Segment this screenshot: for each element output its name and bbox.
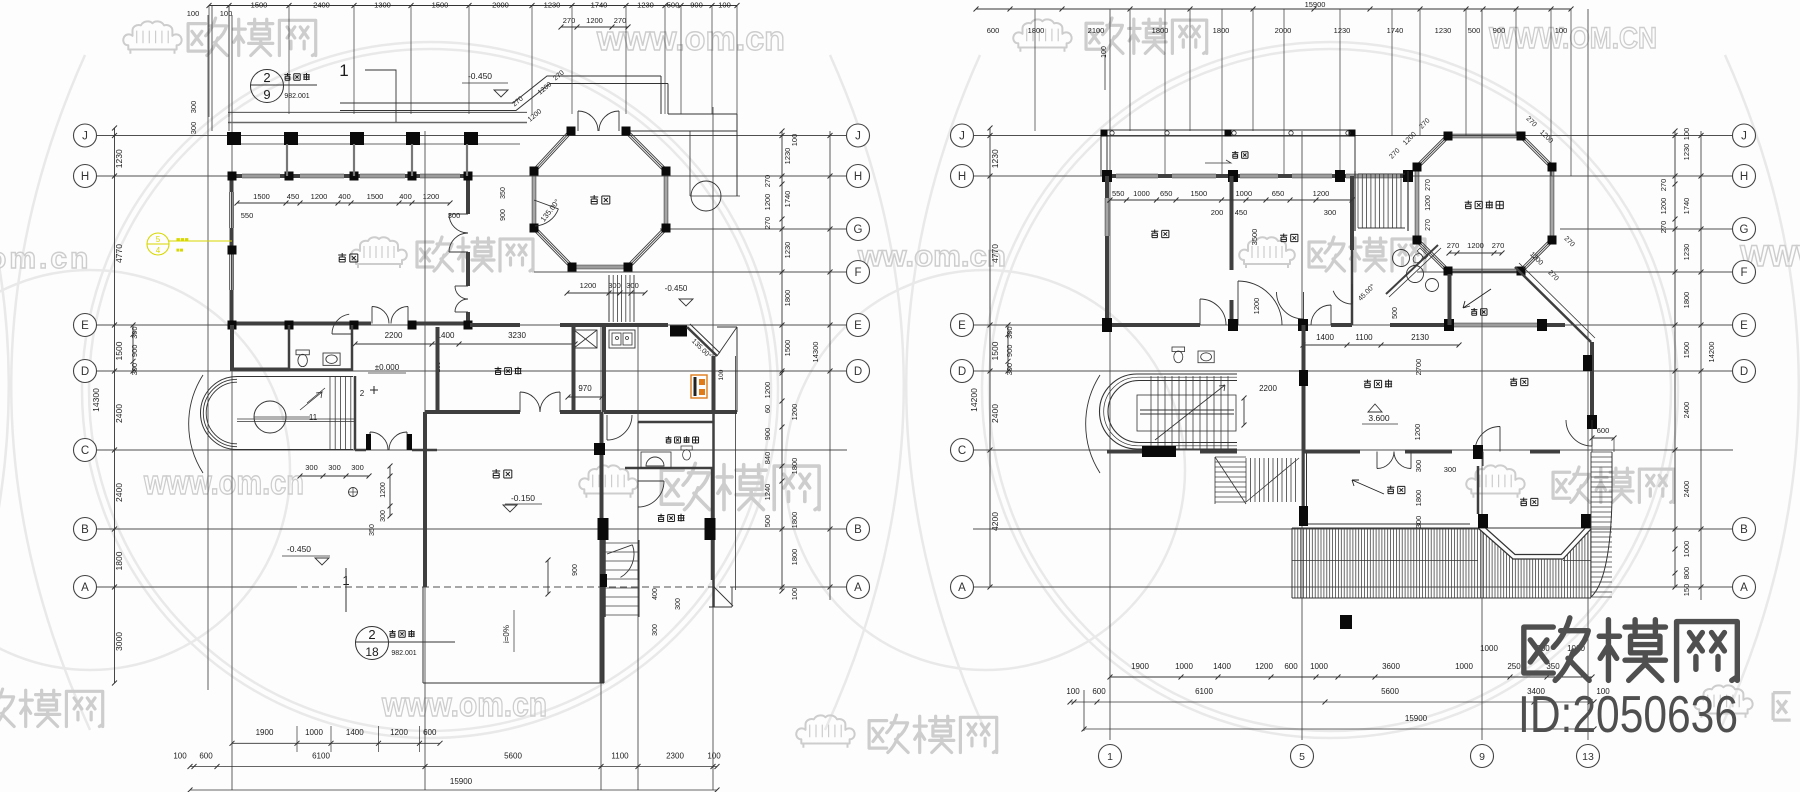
worker room — [637, 468, 639, 580]
corridor right wing — [602, 327, 606, 412]
svg-text:970: 970 — [578, 384, 592, 393]
svg-text:400: 400 — [652, 588, 659, 600]
svg-text:14300: 14300 — [811, 342, 820, 363]
svg-text:1230: 1230 — [544, 1, 561, 10]
svg-text:100: 100 — [718, 1, 731, 10]
svg-text:1800: 1800 — [790, 549, 799, 566]
svg-text:A: A — [1740, 582, 1748, 594]
svg-text:400: 400 — [338, 192, 351, 201]
svg-text:3.600: 3.600 — [1368, 413, 1390, 423]
svg-text:300: 300 — [448, 211, 461, 220]
svg-text:-0.450: -0.450 — [287, 544, 311, 554]
svg-text:1000: 1000 — [1175, 662, 1193, 671]
svg-text:400: 400 — [399, 192, 412, 201]
svg-text:300: 300 — [189, 122, 198, 135]
svg-text:982.001: 982.001 — [391, 650, 416, 657]
svg-text:900: 900 — [690, 1, 703, 10]
toilet near stairs — [1172, 347, 1185, 363]
svg-text:2400: 2400 — [114, 483, 124, 502]
svg-text:2400: 2400 — [990, 404, 1000, 423]
top extension lines — [1034, 9, 1036, 131]
svg-text:om.cn: om.cn — [0, 242, 91, 275]
svg-text:1230: 1230 — [1682, 244, 1691, 261]
svg-text:300: 300 — [1444, 465, 1457, 474]
svg-text:C: C — [81, 445, 89, 457]
svg-text:270: 270 — [1425, 179, 1432, 191]
svg-text:1200: 1200 — [1467, 241, 1484, 250]
svg-text:6100: 6100 — [1195, 687, 1213, 696]
C axis walls — [1107, 450, 1142, 454]
svg-text:3230: 3230 — [508, 331, 526, 340]
svg-text:B: B — [1740, 524, 1748, 536]
svg-text:A: A — [81, 582, 89, 594]
svg-text:E: E — [1740, 320, 1748, 332]
svg-text:1200: 1200 — [1313, 189, 1330, 198]
svg-text:1230: 1230 — [114, 149, 124, 168]
octagon dining room — [627, 130, 667, 170]
svg-text:1400: 1400 — [346, 728, 364, 737]
svg-text:14300: 14300 — [91, 388, 101, 412]
svg-text:1740: 1740 — [591, 1, 608, 10]
svg-text:1800: 1800 — [1152, 26, 1169, 35]
bedroom1 left wall — [1105, 176, 1109, 198]
svg-text:1000: 1000 — [1682, 541, 1691, 558]
watermark row 1 — [123, 21, 181, 53]
svg-text:270: 270 — [1659, 179, 1668, 192]
svg-text:2100: 2100 — [1088, 26, 1105, 35]
svg-text:300: 300 — [351, 463, 364, 472]
garage small dims — [300, 475, 369, 477]
bottom right eave — [714, 587, 733, 606]
octagon bottom dims — [567, 292, 645, 294]
B axis columns — [598, 518, 609, 540]
garage door from hall — [519, 392, 521, 412]
watermark row 4 — [0, 689, 14, 726]
svg-text:3000: 3000 — [114, 632, 124, 651]
svg-text:14200: 14200 — [969, 388, 979, 412]
left plan bottom dimension rows — [232, 742, 440, 744]
kitchen sink — [609, 330, 635, 348]
svg-text:982.001: 982.001 — [284, 93, 309, 100]
svg-text:1240: 1240 — [763, 484, 772, 501]
svg-text:550: 550 — [1112, 189, 1125, 198]
svg-text:4770: 4770 — [990, 244, 1000, 263]
living room double door on E wall — [371, 307, 373, 324]
circle 2/18 stair ref bottom — [356, 627, 389, 660]
west double doors on living right wall — [449, 213, 468, 215]
svg-text:3600: 3600 — [1382, 662, 1400, 671]
svg-text:1000: 1000 — [1310, 662, 1328, 671]
svg-text:60: 60 — [763, 405, 772, 413]
svg-text:9: 9 — [1479, 751, 1485, 763]
octagon door top — [577, 111, 579, 131]
svg-text:100: 100 — [1101, 46, 1108, 58]
svg-text:-0.150: -0.150 — [511, 493, 535, 503]
svg-text:100: 100 — [1555, 26, 1568, 35]
svg-text:±0.000: ±0.000 — [375, 363, 400, 372]
svg-text:J: J — [82, 131, 88, 143]
svg-text:600: 600 — [199, 752, 213, 761]
svg-text:500: 500 — [763, 515, 772, 528]
svg-text:1500: 1500 — [1682, 342, 1691, 359]
left plan axis circles left column — [74, 124, 97, 147]
svg-text:2300: 2300 — [666, 752, 684, 761]
svg-text:E: E — [81, 320, 89, 332]
svg-text:600: 600 — [1284, 662, 1298, 671]
svg-text:270: 270 — [1447, 241, 1460, 250]
svg-text:www.om.cn: www.om.cn — [143, 464, 304, 502]
svg-text:4: 4 — [156, 246, 161, 255]
yellow detail circle — [147, 233, 169, 255]
svg-text:www.om.cn: www.om.cn — [381, 686, 547, 724]
svg-text:D: D — [81, 366, 89, 378]
svg-text:1200: 1200 — [1425, 195, 1432, 211]
svg-text:100: 100 — [220, 9, 233, 18]
svg-text:100: 100 — [187, 9, 200, 18]
right plan right dimension column — [1674, 131, 1676, 587]
svg-text:900: 900 — [1005, 345, 1014, 358]
svg-text:G: G — [854, 224, 863, 236]
svg-text:18: 18 — [365, 645, 379, 659]
svg-text:500: 500 — [667, 1, 680, 10]
svg-text:1000: 1000 — [1455, 662, 1473, 671]
right exterior steps — [1591, 451, 1612, 453]
ramp — [422, 587, 424, 683]
svg-text:1500: 1500 — [990, 341, 1000, 360]
porch columns — [227, 132, 241, 145]
svg-text:100: 100 — [790, 588, 799, 601]
svg-text:D: D — [854, 366, 862, 378]
canopy stairs top middle — [1357, 174, 1359, 228]
E wall right plan — [1104, 323, 1200, 327]
svg-text:2700: 2700 — [1414, 359, 1423, 376]
kitchen flue box — [574, 330, 597, 348]
svg-text:900: 900 — [1493, 26, 1506, 35]
svg-text:1230: 1230 — [783, 242, 792, 259]
svg-text:300: 300 — [1005, 326, 1014, 339]
svg-text:270: 270 — [1425, 219, 1432, 231]
E-D dims right plan — [1303, 344, 1459, 346]
steps left of balcony — [1215, 456, 1246, 458]
garage labels — [492, 469, 512, 478]
svg-text:900: 900 — [130, 345, 139, 358]
svg-text:14200: 14200 — [1707, 342, 1716, 363]
svg-text:H: H — [1740, 171, 1748, 183]
svg-text:F: F — [1740, 267, 1747, 279]
svg-text:-0.450: -0.450 — [468, 71, 492, 81]
orange appliance — [691, 375, 707, 398]
svg-text:300: 300 — [652, 624, 659, 636]
svg-text:5600: 5600 — [1381, 687, 1399, 696]
bottom bedroom — [1520, 498, 1538, 506]
right plan axis circles left — [951, 124, 974, 147]
svg-text:300: 300 — [1414, 516, 1423, 529]
bay window cutout — [1478, 528, 1591, 559]
svg-text:2400: 2400 — [1682, 481, 1691, 498]
bedroom2 right wall — [1350, 176, 1354, 250]
svg-text:300: 300 — [1005, 363, 1014, 376]
svg-text:1230: 1230 — [1334, 26, 1351, 35]
svg-text:3500: 3500 — [1250, 229, 1259, 246]
svg-text:H: H — [81, 171, 89, 183]
svg-text:100: 100 — [718, 369, 725, 380]
svg-text:1740: 1740 — [1682, 198, 1691, 215]
svg-text:1: 1 — [339, 61, 348, 80]
svg-text:1400: 1400 — [1316, 333, 1334, 342]
svg-text:2400: 2400 — [114, 404, 124, 423]
svg-text:1500: 1500 — [251, 1, 268, 10]
svg-text:270: 270 — [614, 16, 627, 25]
svg-text:2: 2 — [263, 70, 270, 85]
svg-text:300: 300 — [1414, 460, 1423, 473]
svg-text:1500: 1500 — [367, 192, 384, 201]
svg-text:1200: 1200 — [1413, 424, 1422, 441]
svg-text:270: 270 — [1492, 241, 1505, 250]
svg-text:270: 270 — [1659, 221, 1668, 234]
hall double door on C wall — [369, 432, 371, 450]
svg-text:650: 650 — [1272, 189, 1285, 198]
svg-text:■■: ■■ — [176, 248, 184, 254]
svg-text:1200: 1200 — [1252, 298, 1261, 315]
svg-text:1800: 1800 — [114, 551, 124, 570]
right plan top dimension row — [976, 8, 1571, 10]
bedroom dividing wall — [1230, 176, 1234, 270]
svg-text:800: 800 — [1682, 567, 1691, 580]
svg-text:11: 11 — [309, 413, 318, 422]
svg-text:300: 300 — [626, 281, 639, 290]
right plan left dimension column — [989, 128, 991, 587]
dining label — [590, 195, 610, 204]
bathroom E-D — [288, 325, 291, 371]
svg-text:1800: 1800 — [790, 512, 799, 529]
svg-text:H: H — [958, 171, 966, 183]
svg-text:1230: 1230 — [783, 148, 792, 165]
svg-text:1200: 1200 — [580, 281, 597, 290]
svg-text:1500: 1500 — [253, 192, 270, 201]
site logo bottom right — [1524, 618, 1589, 681]
svg-text:1100: 1100 — [611, 752, 629, 761]
svg-text:1: 1 — [1107, 751, 1113, 763]
bedroom labels and dims — [1151, 230, 1169, 238]
interior stairs — [329, 377, 331, 449]
svg-text:450: 450 — [287, 192, 300, 201]
entrance terrace outline — [340, 76, 661, 103]
svg-text:350: 350 — [369, 524, 376, 536]
svg-text:100: 100 — [790, 134, 799, 147]
turret right plan — [1100, 374, 1238, 449]
svg-text:900: 900 — [500, 209, 507, 221]
svg-text:E: E — [958, 320, 966, 332]
svg-text:300: 300 — [608, 281, 621, 290]
left plan top dimension row — [209, 5, 737, 7]
svg-text:2200: 2200 — [385, 331, 403, 340]
bottom axis circles — [1099, 745, 1122, 768]
svg-text:ww.om.cn: ww.om.cn — [857, 240, 1006, 273]
octagon dining void — [1448, 133, 1521, 135]
svg-text:2000: 2000 — [492, 1, 509, 10]
svg-text:2130: 2130 — [1411, 333, 1429, 342]
hallway/garage area walls — [230, 325, 234, 371]
svg-text:1900: 1900 — [256, 728, 274, 737]
svg-text:WWW.OM.CN: WWW.OM.CN — [1489, 22, 1657, 55]
svg-text:1000: 1000 — [1480, 644, 1498, 653]
big hatched terrace — [1292, 528, 1591, 598]
svg-text:300: 300 — [305, 463, 318, 472]
svg-text:1800: 1800 — [1682, 292, 1691, 309]
svg-text:1740: 1740 — [783, 191, 792, 208]
svg-text:250: 250 — [1507, 662, 1521, 671]
bath2 fixtures — [641, 452, 671, 468]
left plan horizontal axis lines — [96, 135, 847, 137]
svg-text:200: 200 — [1211, 208, 1224, 217]
svg-text:15900: 15900 — [1305, 0, 1326, 9]
svg-text:1200: 1200 — [423, 192, 440, 201]
svg-text:100: 100 — [707, 752, 721, 761]
svg-text:1500: 1500 — [783, 340, 792, 357]
svg-text:J: J — [855, 131, 861, 143]
garage — [423, 412, 427, 587]
bathroom middle — [1351, 250, 1354, 284]
octagon dims — [1449, 252, 1502, 254]
lower outline of house footprint — [603, 617, 605, 683]
svg-text:A: A — [958, 582, 966, 594]
svg-text:300: 300 — [675, 598, 682, 610]
svg-text:4770: 4770 — [114, 244, 124, 263]
svg-text:300: 300 — [380, 510, 387, 522]
svg-text:1300: 1300 — [374, 1, 391, 10]
stair hall — [1302, 325, 1306, 450]
svg-text:1200: 1200 — [763, 382, 772, 399]
corner diagonal wall NE — [687, 327, 717, 356]
svg-text:A: A — [854, 582, 862, 594]
porch band top — [228, 111, 527, 113]
canopy room — [1448, 274, 1452, 325]
svg-text:www.om.cn: www.om.cn — [596, 20, 785, 58]
right plan axis circles right — [1733, 124, 1756, 147]
svg-text:1200: 1200 — [380, 482, 387, 498]
svg-text:1800: 1800 — [1028, 26, 1045, 35]
pantry label — [495, 367, 522, 375]
svg-text:2: 2 — [368, 627, 375, 642]
svg-text:1230: 1230 — [1435, 26, 1452, 35]
svg-text:1000: 1000 — [1133, 189, 1150, 198]
svg-text:150: 150 — [1682, 584, 1691, 597]
svg-text:F: F — [854, 267, 861, 279]
E-D dim row — [355, 343, 575, 345]
right plan bottom dimension rows — [1110, 676, 1592, 678]
svg-text:-0.450: -0.450 — [665, 284, 688, 293]
living room corner columns — [228, 172, 237, 181]
svg-text:5: 5 — [1299, 751, 1305, 763]
turret — [201, 377, 354, 450]
svg-text:1740: 1740 — [1387, 26, 1404, 35]
svg-text:2000: 2000 — [1275, 26, 1292, 35]
svg-text:1200: 1200 — [390, 728, 408, 737]
living room walls — [228, 174, 242, 178]
living room interior dims — [237, 202, 450, 204]
svg-text:1230: 1230 — [637, 1, 654, 10]
left plan left dimension column — [114, 128, 116, 683]
svg-text:270: 270 — [763, 217, 772, 230]
svg-text:H: H — [854, 171, 862, 183]
up label — [370, 386, 378, 394]
svg-text:1800: 1800 — [783, 290, 792, 307]
svg-text:1000: 1000 — [305, 728, 323, 737]
svg-text:300: 300 — [189, 101, 198, 114]
svg-text:2: 2 — [360, 389, 365, 398]
svg-text:1200: 1200 — [790, 404, 799, 421]
svg-text:1500: 1500 — [114, 341, 124, 360]
svg-text:840: 840 — [763, 452, 772, 465]
svg-text:4200: 4200 — [990, 512, 1000, 531]
right plan horizontal axis lines — [973, 135, 1733, 137]
svg-text:G: G — [1740, 224, 1749, 236]
right bedroom — [1510, 378, 1528, 386]
svg-text:300: 300 — [130, 326, 139, 339]
living room label — [338, 253, 358, 262]
G axis column bubble circle — [691, 181, 721, 211]
svg-text:600: 600 — [1092, 687, 1106, 696]
svg-text:1900: 1900 — [1131, 662, 1149, 671]
svg-text:1000: 1000 — [1235, 189, 1252, 198]
svg-text:15900: 15900 — [1405, 714, 1428, 723]
svg-text:350: 350 — [500, 187, 507, 199]
svg-text:650: 650 — [1160, 189, 1173, 198]
svg-text:D: D — [958, 366, 966, 378]
svg-text:B: B — [81, 524, 89, 536]
svg-text:ID:2050636: ID:2050636 — [1518, 686, 1738, 744]
svg-text:C: C — [958, 445, 966, 457]
exterior stairs right — [604, 542, 639, 544]
svg-text:450: 450 — [1235, 208, 1248, 217]
svg-text:900: 900 — [572, 564, 579, 576]
right plan main vertical grid lines — [1109, 9, 1111, 740]
svg-text:J: J — [959, 131, 965, 143]
left plan main vertical grid lines — [207, 15, 209, 690]
bottom balcony — [1306, 453, 1308, 524]
svg-text:1200: 1200 — [1255, 662, 1273, 671]
svg-text:1500: 1500 — [432, 1, 449, 10]
svg-text:B: B — [854, 524, 862, 536]
svg-text:1200: 1200 — [1659, 198, 1668, 215]
svg-text:1800: 1800 — [790, 458, 799, 475]
svg-text:J: J — [1741, 131, 1747, 143]
svg-text:2200: 2200 — [1259, 384, 1277, 393]
svg-text:270: 270 — [763, 175, 772, 188]
bathroom 2 — [638, 421, 714, 424]
circle 2/9 stair ref top — [251, 70, 284, 103]
svg-text:900: 900 — [763, 428, 772, 441]
SE diagonal wall to bedroom — [1515, 267, 1591, 342]
H wall with windows — [1104, 174, 1116, 178]
svg-text:5: 5 — [156, 235, 161, 244]
svg-text:1800: 1800 — [1213, 26, 1230, 35]
svg-text:300: 300 — [130, 363, 139, 376]
svg-text:1100: 1100 — [1355, 333, 1373, 342]
svg-text:500: 500 — [1392, 307, 1399, 319]
svg-text:■■■: ■■■ — [176, 237, 189, 244]
svg-text:600: 600 — [423, 728, 437, 737]
svg-text:1230: 1230 — [1682, 144, 1691, 161]
svg-text:6100: 6100 — [312, 752, 330, 761]
svg-text:13: 13 — [1582, 751, 1594, 763]
svg-text:600: 600 — [1597, 426, 1610, 435]
svg-text:300: 300 — [328, 463, 341, 472]
svg-text:9: 9 — [263, 87, 270, 102]
family room labels — [1364, 380, 1392, 388]
svg-text:1400: 1400 — [1213, 662, 1231, 671]
svg-text:100: 100 — [1066, 687, 1080, 696]
